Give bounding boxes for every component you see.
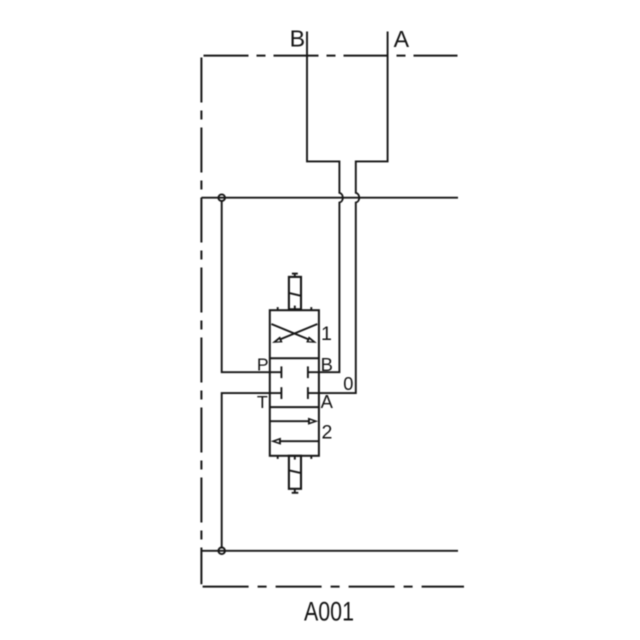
valve position 2 arrow line to left — [279, 440, 319, 442]
valve position 0 blocked port T bar — [280, 387, 282, 399]
wire top rail — [201, 197, 458, 199]
svg-text:2: 2 — [322, 422, 333, 444]
node top junction circle — [218, 194, 225, 201]
svg-text:1: 1 — [321, 323, 332, 345]
solenoid Y1 top pin cap — [292, 273, 298, 275]
border top (dash-dot) — [204, 55, 458, 57]
valve V1 divider box1/box0 — [270, 357, 319, 359]
solenoid Y2 diagonal — [289, 470, 301, 473]
valve position 2 arrow line to right — [270, 420, 310, 422]
valve position 1 crossed arrow (to lower-right) — [271, 324, 312, 341]
border bottom (dash-dot) — [203, 586, 464, 588]
solenoid Y1 top pin stem — [294, 274, 296, 277]
svg-text:P: P — [257, 355, 269, 375]
svg-text:B: B — [321, 354, 333, 375]
valve top interface nub right — [310, 307, 312, 310]
wire P branch: top node down then right to port P — [222, 201, 282, 372]
wire T branch: port T left then down to bottom node — [222, 393, 282, 547]
solenoid Y2 bottom pin stem — [294, 489, 296, 493]
wire B: from label B down, right, down with hop, into port B — [307, 32, 343, 373]
valve position 0 blocked port A bar — [307, 387, 309, 399]
arrowhead position1 lower-right — [306, 336, 317, 343]
node bottom junction circle — [218, 548, 225, 555]
wire bottom rail — [201, 550, 458, 552]
valve position 0 blocked port B bar — [307, 366, 309, 378]
arrowhead position2 left — [271, 438, 281, 445]
svg-text:B: B — [290, 26, 305, 52]
arrowhead position1 lower-left — [272, 336, 283, 343]
wire A: from label A down, left, down with hop, into port A — [308, 32, 388, 394]
svg-text:A001: A001 — [304, 596, 354, 626]
svg-text:A: A — [321, 391, 334, 412]
svg-text:0: 0 — [343, 374, 353, 394]
valve bottom interface nub right — [310, 456, 312, 459]
valve position 1 crossed arrow (to lower-left) — [277, 324, 318, 341]
valve position 0 blocked port P bar — [280, 366, 282, 378]
solenoid Y2 bottom pin cap — [292, 492, 299, 494]
valve V1 body outline — [270, 310, 319, 456]
solenoid Y1 top rectangle — [289, 277, 301, 309]
valve top interface nub left — [277, 307, 279, 310]
solenoid Y2 bottom rectangle — [289, 456, 301, 489]
valve bottom interface nub left — [277, 456, 279, 459]
arrowhead position2 right — [308, 418, 318, 425]
solenoid Y1 diagonal — [289, 293, 301, 296]
solenoid Y1 bottom tick — [294, 306, 296, 311]
border left (dash-dot) — [200, 58, 202, 585]
valve V1 divider box0/box2 — [270, 406, 319, 408]
svg-text:A: A — [394, 26, 410, 52]
svg-text:T: T — [257, 392, 268, 412]
solenoid Y2 top tick — [294, 456, 296, 460]
